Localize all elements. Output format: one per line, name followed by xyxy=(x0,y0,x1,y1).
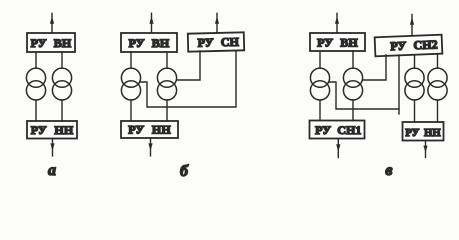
wire РУ СН2 to T4 (v) xyxy=(437,55,439,68)
transformer T2 (a) xyxy=(52,68,71,100)
arrow down from РУ НН (a) xyxy=(50,139,54,156)
arrow up from РУ ВН (v) xyxy=(335,13,339,33)
box РУ НН (v) xyxy=(403,122,444,141)
wire РУ ВН to AT1 (b) xyxy=(130,52,132,68)
arrow up from РУ СН2 (v) xyxy=(410,15,414,36)
arrow up from РУ СН (b) xyxy=(215,13,219,33)
autotransformer AT1 (v) xyxy=(310,68,329,100)
transformer T4 (v) xyxy=(428,68,447,100)
wire AT2 to РУ СН1 (v) xyxy=(352,100,354,121)
wire AT1 to РУ НН (b) xyxy=(130,100,132,121)
svg-text:РУ СН1: РУ СН1 xyxy=(315,123,361,137)
box РУ ВН (a) xyxy=(27,33,75,52)
svg-text:РУ СН2: РУ СН2 xyxy=(390,37,438,53)
svg-text:РУ НН: РУ НН xyxy=(31,123,74,137)
svg-text:б: б xyxy=(180,163,189,180)
autotransformer AT1 (b) xyxy=(121,68,140,100)
box РУ СН (b) xyxy=(188,32,244,51)
box РУ СН1 (v) xyxy=(310,121,365,139)
svg-text:РУ НН: РУ НН xyxy=(128,123,171,137)
wire AT1 tap to РУ СН (b) xyxy=(141,51,236,107)
arrow down from РУ НН (v) xyxy=(423,141,427,158)
svg-text:а: а xyxy=(48,162,56,179)
svg-text:в: в xyxy=(385,162,392,179)
transformer T1 (a) xyxy=(26,68,45,100)
wire РУ ВН to T1 (a) xyxy=(35,52,37,68)
wire AT1 tap to РУ СН2 (v) xyxy=(330,82,399,109)
wire AT1 to РУ СН1 (v) xyxy=(319,100,321,121)
svg-text:РУ ВН: РУ ВН xyxy=(317,35,358,49)
wire РУ ВН to AT2 (b) xyxy=(166,52,168,68)
box РУ ВН (v) xyxy=(310,33,365,51)
wire T2 to РУ НН (a) xyxy=(61,100,63,121)
arrow down from РУ НН (b) xyxy=(148,138,152,156)
autotransformer AT2 (b) xyxy=(157,68,176,100)
svg-text:РУ НН: РУ НН xyxy=(405,128,440,139)
wire AT2 tap to РУ СН2 (v) xyxy=(363,55,386,80)
wire T4 to РУ НН (v) xyxy=(437,100,439,122)
box РУ НН (a) xyxy=(27,121,77,139)
svg-text:РУ ВН: РУ ВН xyxy=(31,36,72,50)
wire РУ СН2 down to tap junction (v) xyxy=(398,55,400,114)
arrow up from РУ ВН (a) xyxy=(50,13,54,33)
autotransformer AT2 (v) xyxy=(343,68,362,100)
wire T1 to РУ НН (a) xyxy=(35,100,37,121)
svg-text:РУ ВН: РУ ВН xyxy=(129,36,170,50)
wire T3 to РУ НН (v) xyxy=(414,100,416,122)
wire РУ ВН to AT2 (v) xyxy=(352,51,354,68)
arrow down from РУ СН1 (v) xyxy=(336,139,340,158)
wire РУ ВН to AT1 (v) xyxy=(319,51,321,68)
box РУ СН2 (v) xyxy=(375,35,443,57)
wire AT2 to РУ НН (b) xyxy=(166,100,168,121)
box РУ ВН (b) xyxy=(121,33,177,52)
transformer T3 (v) xyxy=(405,68,424,100)
svg-text:РУ СН: РУ СН xyxy=(197,35,239,50)
wire РУ СН2 to T3 (v) xyxy=(414,55,416,68)
arrow up from РУ ВН (b) xyxy=(149,13,153,33)
wire РУ ВН to T2 (a) xyxy=(61,52,63,68)
box РУ НН (b) xyxy=(121,121,178,138)
wire AT2 tap to РУ СН (b) xyxy=(177,51,200,80)
